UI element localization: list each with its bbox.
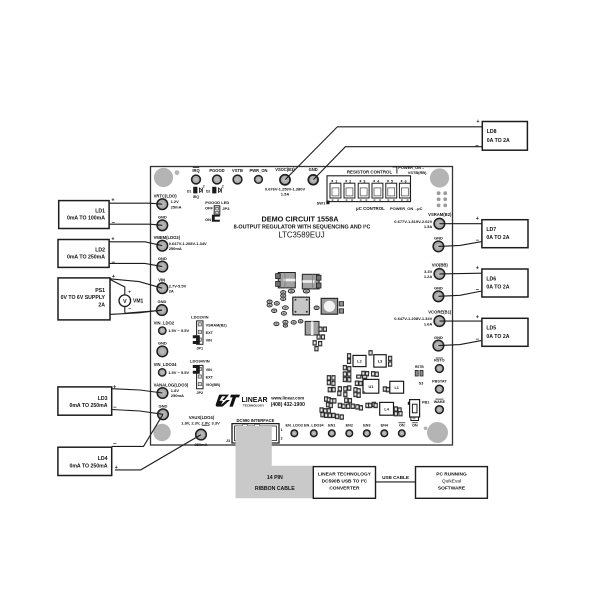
resistor [347,404,350,409]
svg-text:2: 2 [222,184,224,188]
resistor [389,356,392,361]
resistor [344,392,347,397]
svg-text:EN_LDO34: EN_LDO34 [304,424,325,428]
resistor [348,377,351,382]
svg-text:GND: GND [309,167,318,172]
svg-text:PBSTAT: PBSTAT [432,379,447,383]
resistor [327,398,330,403]
resistor [359,381,362,386]
resistor [332,413,335,418]
svg-text:ON: ON [412,424,418,428]
load box LD3 0mA TO 250mA [58,387,112,415]
resistor small [272,309,277,313]
resistor [347,359,350,364]
svg-text:µC CONTROL: µC CONTROL [356,206,385,211]
jumper JP3 PGOOD LED select [205,200,230,222]
svg-text:LDO34VIN: LDO34VIN [190,358,210,363]
svg-text:VMEM(LDO2): VMEM(LDO2) [154,235,181,240]
svg-text:VSTB: VSTB [232,168,243,173]
turret EN3 [363,424,370,437]
mounting hole bottom-left [153,424,170,441]
resistor [374,403,377,408]
DIP switch SW1 RESISTOR CONTROL [327,170,423,211]
capacitor small [303,289,309,293]
LED D1 with pin 2 label and IRQ net label [187,184,205,199]
svg-text:EN_LDO2: EN_LDO2 [286,424,304,428]
resistor [343,365,346,370]
svg-text:LD1: LD1 [95,208,105,214]
svg-text:SW1: SW1 [317,200,326,205]
svg-text:5: 5 [391,179,393,183]
svg-text:RSTB: RSTB [415,365,424,369]
resistor [327,409,330,414]
resistor [342,404,345,409]
resistor [345,398,348,403]
resistor [359,406,362,411]
turret EN_LDO34 [304,424,325,437]
wire PS1 minus to GND [110,310,162,314]
slide switch ON (S4) [411,415,419,428]
resistor pair right of CBB [319,327,322,331]
svg-text:1.5V − 5.5V: 1.5V − 5.5V [168,328,189,333]
wire PS1 plus to VIN [110,279,162,288]
svg-text:LD3: LD3 [98,396,108,402]
svg-text:LD6: LD6 [486,276,496,282]
resistor [321,412,324,417]
resistor [394,411,397,416]
svg-text:GND: GND [158,340,167,345]
resistor [389,362,392,367]
ribbon cable to DC590 [235,426,313,498]
svg-text:2A: 2A [169,289,174,294]
turret GND 6 [433,236,444,252]
svg-text:250mA: 250mA [171,393,184,398]
turret WAKE [434,399,446,413]
resistor [329,403,332,408]
wire GND to LD6 minus [438,291,482,296]
test point RSTB with reference S3 [415,365,424,385]
svg-text:VIN: VIN [206,368,213,372]
wire USB cable [376,481,416,483]
wire PS1 plus to VM1 plus [110,279,125,288]
svg-text:1.2A: 1.2A [424,274,433,279]
wire VSRAM to LD7 plus [439,223,482,225]
resistor [357,393,360,398]
box PC RUNNING QuikEval SOFTWARE [416,467,488,499]
svg-text:+: + [476,315,479,321]
inductor LBB power inductor [321,298,343,314]
resistor [324,409,327,414]
turret VSOC(B3) [265,167,306,196]
svg-text:EN2: EN2 [346,424,353,428]
resistor [348,372,351,377]
resistor [354,392,357,397]
svg-text:GND: GND [157,299,166,304]
resistor [320,408,323,413]
capacitor small [281,312,286,316]
svg-text:−: − [476,238,480,244]
svg-text:2A: 2A [98,302,105,308]
svg-text:S3: S3 [419,381,423,385]
capacitor CBB [305,321,319,335]
turret VIN_LDO2 [154,320,190,334]
resistor [375,372,378,377]
turret PWR_ON [250,168,268,184]
turret VRTC(LDO) 1.2V 25mA [154,194,182,210]
capacitor small [281,294,286,297]
turret IRQ [192,168,201,184]
svg-text:POWER_ON→µC: POWER_ON→µC [390,206,423,211]
svg-text:14 PIN: 14 PIN [267,475,283,481]
resistor [362,371,365,376]
resistor [326,402,329,407]
inductor L4 [380,402,394,415]
wire LD2 plus to VMEM [109,242,162,246]
turret VIO(BB) [424,262,449,279]
resistor [338,391,341,396]
label 14 PIN RIBBON CABLE [255,475,295,492]
resistor [332,381,335,386]
svg-text:+: + [113,384,116,390]
jumper JP1 LDO2VIN select [191,314,227,350]
resistor [338,403,341,408]
via grid J4 [437,191,447,207]
load box LD1 0mA TO 100mA [59,201,109,229]
svg-text:GND: GND [434,236,443,241]
svg-text:VIN_LDO2: VIN_LDO2 [154,320,175,325]
IC U1 [363,379,379,393]
resistor [354,388,357,393]
wire GND to LD7 minus [438,242,482,247]
svg-text:PS1: PS1 [95,288,105,294]
PCB board outline DC1558A [151,167,453,446]
turret RSTO [434,358,445,372]
jumper JP2 LDO34VIN select [190,358,221,395]
resistor [383,387,386,392]
svg-text:250mA: 250mA [194,442,207,447]
svg-text:GND: GND [434,335,443,340]
wire VM1 minus to GND [125,310,162,313]
capacitor small [314,306,319,310]
resistor [336,414,339,419]
mounting hole top-left [154,168,173,187]
svg-text:PWR_ON: PWR_ON [250,168,268,173]
svg-text:VSOC(B3): VSOC(B3) [275,167,295,172]
svg-text:GND: GND [159,403,168,408]
resistor [365,371,368,376]
svg-text:GND: GND [434,286,443,291]
resistor [386,387,389,392]
svg-text:−: − [112,221,116,227]
LED D2 with pin 2 label [206,184,224,193]
svg-text:GND: GND [158,256,167,261]
mounting hole top-right [430,168,449,187]
svg-text:−: − [128,306,131,312]
turret GND 8 [433,335,444,351]
svg-text:IRQ: IRQ [192,168,200,173]
svg-text:0A TO 2A: 0A TO 2A [486,334,509,340]
svg-text:OFF: OFF [205,206,214,211]
resistor small [298,320,303,323]
resistor [355,381,358,386]
svg-text:+: + [476,265,479,271]
inductor L3 [374,355,386,367]
svg-text:LD2: LD2 [95,247,105,253]
svg-text:JP3: JP3 [222,206,230,211]
mounting hole bottom-right [427,422,448,443]
svg-text:VCORE(B1): VCORE(B1) [428,310,452,315]
svg-text:VSTB(RB): VSTB(RB) [408,170,427,175]
turret GND 5 [158,403,169,419]
svg-text:www.linear.com: www.linear.com [270,395,304,400]
svg-text:CONVERTER: CONVERTER [329,486,360,492]
wire VIO to LD6 plus [439,272,482,275]
svg-text:0mA TO 250mA: 0mA TO 250mA [69,463,107,469]
resistor [328,413,331,418]
resistor [398,408,401,413]
svg-text:2: 2 [349,179,351,183]
turret PBSTAT [432,379,447,393]
svg-text:D2: D2 [206,189,210,193]
resistor [347,354,350,359]
load box LD7 0A TO 2A [482,220,528,248]
svg-text:RSTO: RSTO [434,359,445,363]
svg-text:L1: L1 [394,386,398,390]
capacitor small [281,291,286,294]
turret EN4 [381,424,389,437]
resistor [315,346,318,351]
svg-text:VIN_LDO34: VIN_LDO34 [154,362,177,367]
svg-text:1.6A: 1.6A [424,321,433,326]
svg-text:IRQ: IRQ [193,195,199,199]
svg-text:DC590B USB TO I²C: DC590B USB TO I²C [322,479,368,485]
svg-text:WAKE: WAKE [434,400,446,404]
wire GND to LD5 minus [438,340,482,345]
resistor [369,351,372,356]
resistor small [267,303,272,307]
resistor [366,403,369,408]
wire LD4 plus to VAUX [115,435,201,470]
svg-text:D1: D1 [187,189,191,193]
wire GND top to LD8 minus [313,147,482,180]
voltmeter VM1 [119,288,144,312]
svg-text:25mA: 25mA [171,204,182,209]
wire LD1 minus to GND [109,224,162,225]
svg-text:6: 6 [405,179,407,183]
svg-text:PGOOD LED: PGOOD LED [205,200,229,205]
svg-text:VSRAM(B2): VSRAM(B2) [206,323,228,327]
pushbutton PB1 [408,400,430,417]
resistor [357,389,360,394]
svg-text:−: − [113,312,117,318]
svg-text:EN3: EN3 [363,424,370,428]
turret EN_LDO2 [286,424,304,437]
svg-text:0A TO 2A: 0A TO 2A [486,235,509,241]
turret EN2 [346,424,353,437]
svg-text:+: + [476,119,479,125]
resistor [338,387,341,392]
svg-text:(408) 432-1900: (408) 432-1900 [271,402,305,408]
svg-text:TECHNOLOGY: TECHNOLOGY [243,403,264,407]
resistor [356,405,359,410]
svg-text:LINEAR TECHNOLOGY: LINEAR TECHNOLOGY [318,472,372,478]
connector J3 DC590 INTERFACE [226,418,283,443]
turret GND 4 [157,340,168,356]
switch SW1 reference label [317,200,330,205]
resistor [343,377,346,382]
resistor [325,413,328,418]
capacitor small [283,306,289,310]
svg-text:RIBBON CABLE: RIBBON CABLE [255,486,295,492]
svg-text:LD4: LD4 [98,456,108,462]
turret GND 7 [433,286,444,302]
svg-text:U1: U1 [368,385,373,389]
resistor small [267,300,272,304]
load box LD6 0A TO 2A [482,269,528,297]
svg-text:ON: ON [205,217,211,222]
svg-text:JP1: JP1 [196,347,203,351]
svg-text:EXT: EXT [206,331,214,335]
svg-text:250mA: 250mA [169,246,182,251]
svg-text:VRTC(LDO): VRTC(LDO) [154,194,178,199]
svg-text:JP2: JP2 [196,391,203,395]
svg-text:QuikEval: QuikEval [442,479,461,485]
resistor [325,397,328,402]
turret ON [398,423,405,437]
resistor [348,386,351,391]
svg-text:1: 1 [281,428,283,432]
wire LD3 plus to VANALOG [112,389,163,393]
svg-text:LTC3589EUJ: LTC3589EUJ [278,231,324,240]
resistor [372,402,375,407]
svg-text:J3: J3 [226,439,230,443]
svg-text:0mA TO 250mA: 0mA TO 250mA [67,255,105,261]
resistor small [291,321,296,325]
svg-text:EXT: EXT [206,375,214,379]
svg-text:0mA TO 100mA: 0mA TO 100mA [67,216,105,222]
capacitor small [283,324,287,327]
svg-text:3: 3 [363,179,365,183]
svg-text:LD8: LD8 [487,129,497,135]
svg-text:VSRAM(B2): VSRAM(B2) [428,212,452,217]
resistor [327,380,330,385]
svg-text:ON: ON [399,424,405,428]
turret VANALOG(LDO3) [154,382,189,398]
wire VCORE to LD5 plus [439,320,482,322]
svg-text:1.5A: 1.5A [281,191,290,196]
svg-text:1: 1 [335,179,337,183]
svg-text:PGOOD: PGOOD [209,168,224,173]
net label POWER_ON VSTB(RB) [393,165,428,175]
svg-text:LD7: LD7 [486,227,496,233]
resistor [333,399,336,404]
turret GND 1 [157,214,168,230]
svg-text:DEMO CIRCUIT 1558A: DEMO CIRCUIT 1558A [261,214,339,223]
resistor [332,376,335,381]
load box LD4 0mA TO 250mA [58,447,112,475]
power supply box PS1 0V TO 6V SUPPLY 2A [58,278,110,320]
svg-text:L3: L3 [378,360,382,364]
svg-text:VIO(BB): VIO(BB) [432,262,449,267]
turret PGOOD [209,168,224,184]
svg-text:LDO2VIN: LDO2VIN [191,314,208,319]
resistor [332,387,335,392]
svg-text:1.5A: 1.5A [424,224,433,229]
svg-text:EN1: EN1 [328,424,335,428]
turret VSTB [232,168,243,184]
svg-text:RESISTOR CONTROL: RESISTOR CONTROL [347,170,393,175]
load box LD5 0A TO 2A [482,318,528,346]
turret VAUX(LDO4) [181,415,220,447]
resistor small [274,322,279,326]
svg-text:2: 2 [281,436,283,440]
svg-text:0V TO 6V SUPPLY: 0V TO 6V SUPPLY [61,295,106,301]
Linear Technology logo [216,395,268,408]
resistor EN pullup row [357,375,361,378]
turret VSRAM(B2) [394,212,452,229]
resistor pair below CBB [317,335,320,339]
svg-text:VIN: VIN [206,339,213,343]
turret VMEM(LDO2) [154,235,207,251]
svg-text:2: 2 [203,184,205,188]
inductor L1 [390,381,404,393]
svg-text:+: + [476,216,479,222]
turret VCORE(B1) [394,310,452,327]
capacitor CIN electrolytic [276,273,296,288]
svg-text:0A TO 2A: 0A TO 2A [486,285,509,291]
capacitor small [281,297,286,300]
wire LD3 minus to GND [112,410,163,415]
fiducial pad top-left [175,170,180,175]
resistor [348,398,351,403]
resistor [369,403,372,408]
svg-text:0mA TO 250mA: 0mA TO 250mA [69,403,107,409]
turret EN1 [328,424,335,437]
svg-text:VIO(BB): VIO(BB) [206,383,221,387]
resistor [394,407,397,412]
svg-text:VM1: VM1 [133,299,144,305]
wire LD2 minus to GND [109,263,162,266]
capacitor COUT electrolytic [302,274,321,289]
svg-text:+: + [128,289,131,294]
svg-text:VIN: VIN [158,278,165,283]
resistor [372,372,375,377]
resistor [327,376,330,381]
load box LD8 0A TO 2A [482,122,527,151]
resistor [351,404,354,409]
svg-text:DC590 INTERFACE: DC590 INTERFACE [237,418,275,423]
svg-text:0A TO 2A: 0A TO 2A [487,138,510,144]
turret VIN 2.7V-5.5V 2A [157,278,187,294]
resistor [348,366,351,371]
svg-text:VAUX(LDO4): VAUX(LDO4) [189,415,215,420]
svg-text:SOFTWARE: SOFTWARE [438,486,466,492]
IC U2 LTC3589EUJ QFN [292,296,310,315]
load box LD2 0mA TO 250mA [58,240,109,268]
turret VIN_LDO34 [154,362,190,376]
turret GND 3 [157,299,168,315]
box LINEAR TECHNOLOGY DC590B converter [313,467,375,499]
resistor [319,341,322,346]
svg-text:EN4: EN4 [381,424,389,428]
resistor small [283,320,288,324]
svg-text:V: V [123,299,127,305]
svg-text:PC RUNNING: PC RUNNING [436,472,467,478]
svg-text:LD5: LD5 [486,326,496,332]
inductor L2 [353,355,366,366]
svg-text:VANALOG(LDO3): VANALOG(LDO3) [154,382,189,387]
svg-text:4: 4 [377,179,379,183]
